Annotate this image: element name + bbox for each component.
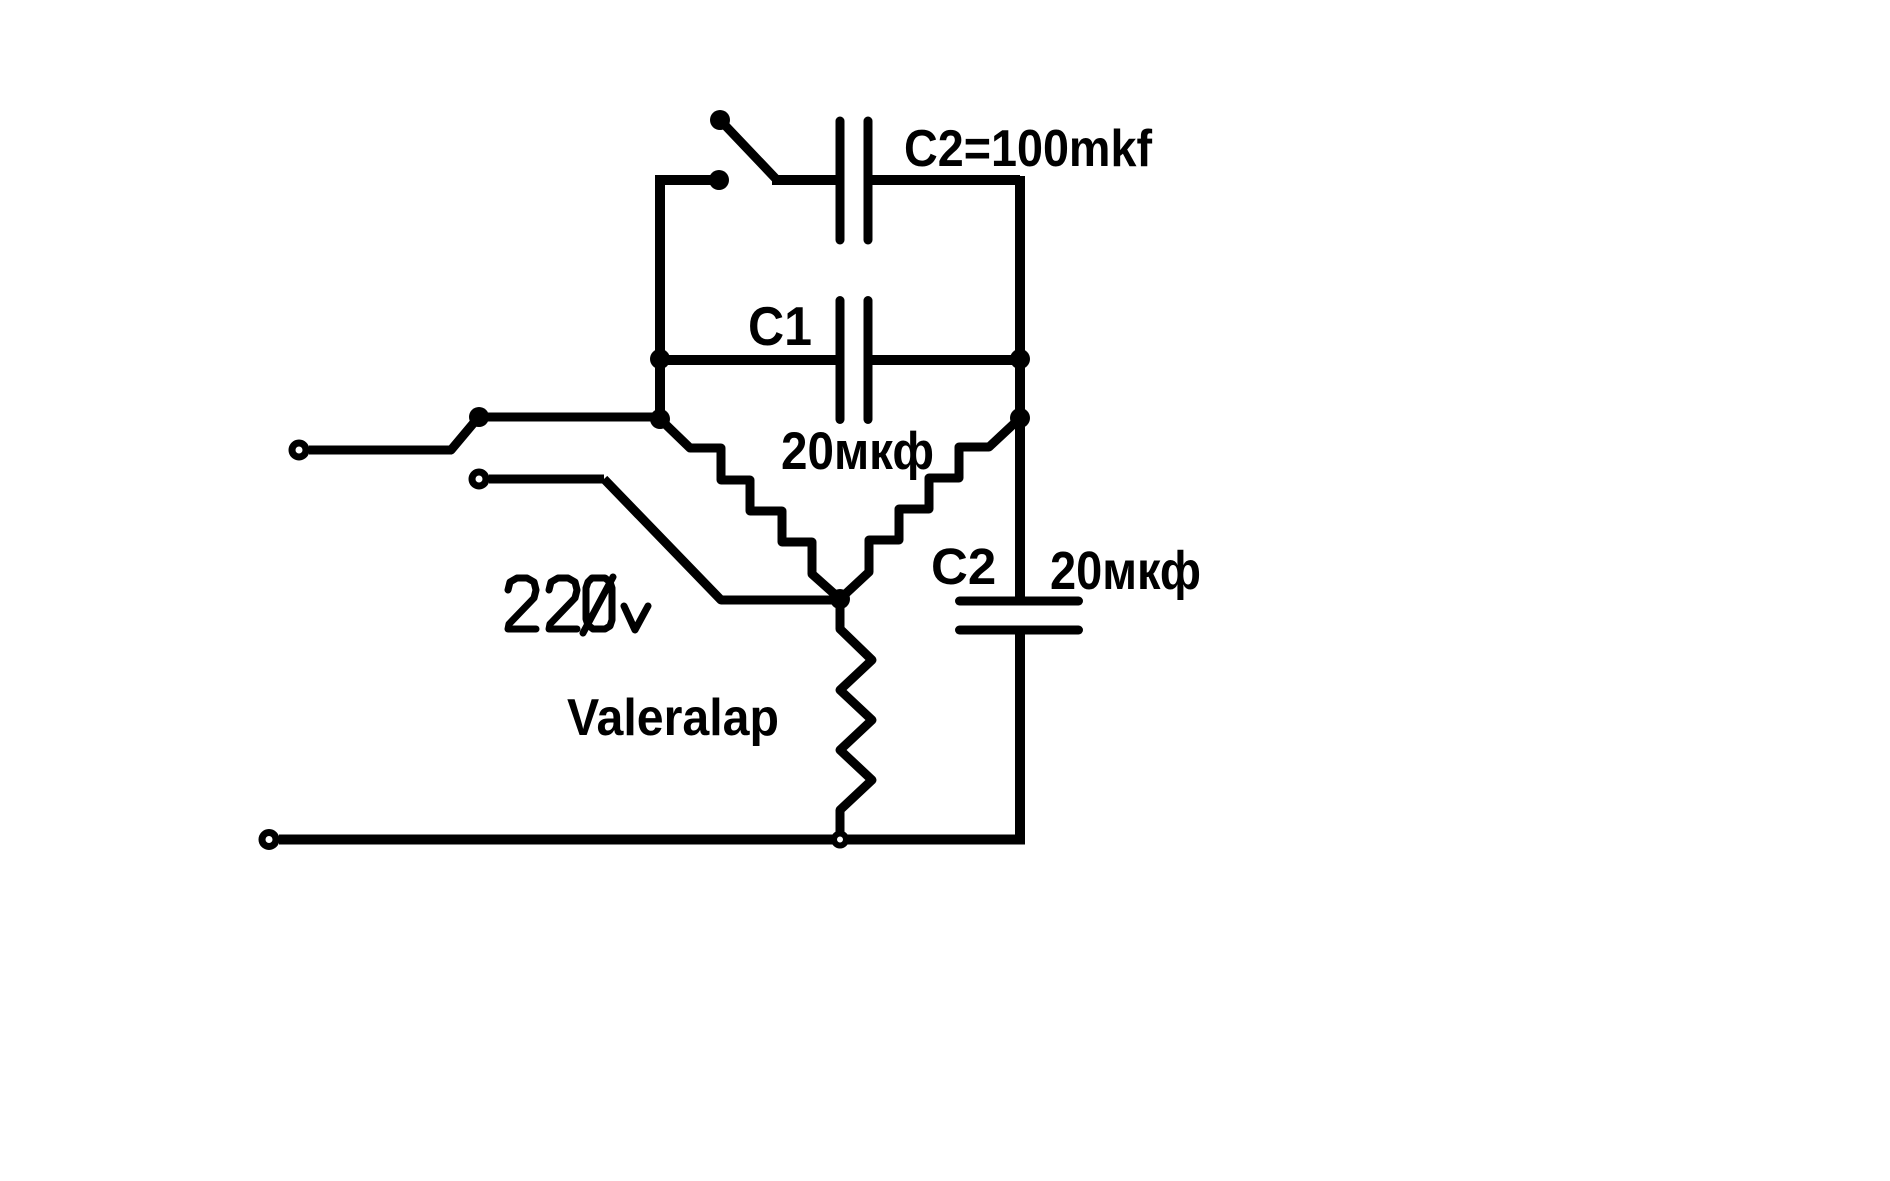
svg-text:C2: C2 [931,538,996,595]
terminal X3 ring [262,833,276,847]
node junction right C1 row [1010,349,1030,369]
node junction right winding top [1010,408,1030,428]
terminal X2 ring [472,472,486,486]
wire blade to C2 left plate [772,175,836,185]
node junction left winding top [650,409,670,429]
wire diagonal to star point [604,479,836,600]
svg-text:20мкф: 20мкф [1050,541,1201,601]
capacitor C2 right top plate [960,597,1079,606]
svg-text:C1: C1 [748,295,812,357]
wire C2 right plate to right bus [872,175,1020,185]
label 220v [508,577,648,633]
resistor R1 zigzag [840,600,872,832]
digit 0 slashed [586,578,612,629]
winding L1 left staircase [660,419,840,599]
capacitor C2 right bottom plate [960,626,1079,635]
svg-text:20мкф: 20мкф [781,422,934,481]
svg-text:Valeralap: Valeralap [567,689,779,747]
svg-text:C2=100mkf: C2=100mkf [904,120,1153,178]
wire bottom rail and right riser [279,630,1020,840]
switch SA2 blade [451,419,477,450]
switch SA1 lower contact dot [709,170,729,190]
capacitor C2 top left plate [836,121,845,240]
capacitor C1 left plate [836,301,845,420]
capacitor C1 right plate [864,301,873,420]
terminal X1 ring [292,443,306,457]
node star point [830,589,850,609]
wire C1 row right [872,355,1020,365]
wire top-left corner and left vertical bus [660,180,713,423]
winding L2 right staircase [840,418,1020,599]
switch SA1 blade [720,120,777,180]
node resistor bottom ring [834,834,846,846]
wire SA2 to left bus [479,413,658,422]
capacitor C2 top right plate [864,121,873,240]
wire right vertical bus [1015,176,1025,600]
switch SA1 top contact dot [710,110,730,130]
wire terminal X1 [309,446,452,455]
wire C1 row left [660,355,836,365]
digit 2 [508,578,536,629]
wire terminal X2 [489,475,604,484]
node junction left C1 row [650,349,670,369]
digit 2 [549,578,577,629]
letter v [624,606,648,630]
switch SA2 contact dot [469,407,489,427]
